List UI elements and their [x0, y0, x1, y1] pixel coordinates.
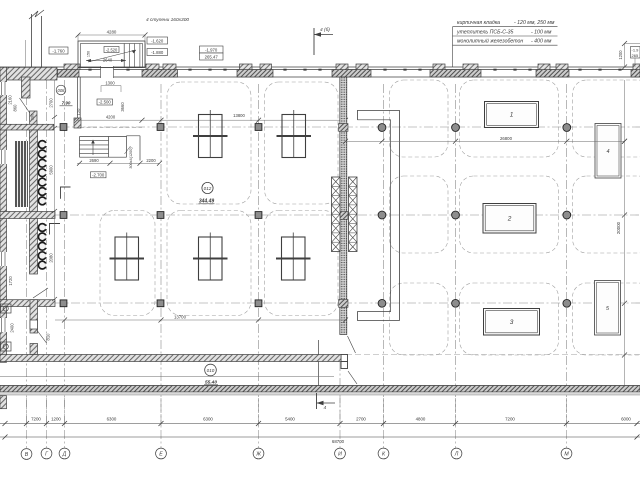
grid column line x=340	[339, 362, 341, 426]
roof opening W5	[276, 233, 311, 281]
column square K6	[255, 212, 262, 219]
interior dim line y118.5	[77, 119, 346, 121]
roof opening W1	[193, 110, 228, 158]
grid bubble Е	[156, 448, 167, 459]
lattice column east	[349, 177, 358, 252]
section mark 4 bottom	[316, 393, 318, 409]
svg-text:- 400 мм: - 400 мм	[531, 39, 552, 45]
turnstile row 1	[38, 141, 46, 149]
opening rect 5	[595, 281, 621, 336]
dim 4280 over stair enclosure	[78, 34, 145, 36]
top right cut label box	[631, 47, 640, 59]
grid column line x=64.5	[64, 80, 66, 426]
stair enclosure top (outside wall)	[78, 41, 145, 68]
svg-text:- 120 мм, 250 мм: - 120 мм, 250 мм	[514, 20, 555, 26]
svg-text:Д: Д	[62, 452, 67, 458]
svg-text:13700: 13700	[174, 314, 187, 319]
door leaf center bottom	[348, 371, 357, 384]
window in left wall 3	[0, 252, 7, 266]
grid bubble Б	[21, 449, 32, 460]
svg-text:68700: 68700	[332, 439, 345, 444]
column square K5	[157, 212, 164, 219]
level box -1.880	[147, 49, 168, 56]
column square K7	[60, 300, 67, 307]
hatched block lower	[30, 344, 38, 355]
svg-text:3: 3	[510, 319, 514, 326]
svg-text:810: 810	[46, 333, 51, 341]
svg-text:7200: 7200	[505, 417, 515, 422]
svg-text:И: И	[338, 452, 342, 458]
svg-text:860: 860	[13, 104, 18, 112]
grid bubble Л	[451, 448, 462, 459]
column circle C8	[452, 299, 460, 307]
column circle C1	[378, 124, 386, 132]
svg-text:1300: 1300	[105, 80, 115, 85]
wall pier P2	[142, 70, 178, 77]
left exterior wall	[0, 67, 7, 362]
svg-text:-1.970: -1.970	[205, 47, 218, 52]
wall block at grid crossing	[339, 124, 348, 132]
column circle C7	[378, 299, 386, 307]
post at x318.6	[318, 340, 320, 386]
level box -2.520	[104, 47, 119, 53]
bottom dim line 1	[0, 423, 640, 425]
svg-text:2690: 2690	[89, 158, 99, 163]
opening rect 3	[484, 309, 540, 336]
svg-text:1200: 1200	[51, 417, 61, 422]
chimney	[31, 14, 33, 67]
svg-text:012: 012	[204, 186, 212, 191]
lintel over pier 8	[433, 64, 445, 70]
dim line 26800	[346, 140, 625, 142]
svg-text:4: 4	[324, 405, 327, 411]
svg-text:-2.520: -2.520	[106, 47, 118, 52]
right vertical dim line	[624, 80, 626, 385]
slab zone pill R11	[573, 176, 640, 253]
slab zone pill R6	[390, 80, 449, 157]
bracket mark 1	[61, 187, 71, 199]
wall pier P3	[237, 70, 273, 77]
slab zone pill R7	[460, 80, 559, 157]
slab zone pill R12	[390, 283, 449, 355]
wall stub V1b	[30, 111, 37, 124]
dim line y163.5	[77, 162, 160, 164]
svg-text:344.49: 344.49	[199, 198, 215, 204]
grid column line x=566.5	[566, 84, 568, 426]
door jamb block	[30, 320, 38, 329]
room circle 010	[205, 364, 217, 376]
level label -2.700	[91, 172, 107, 178]
svg-text:Л: Л	[454, 452, 459, 458]
svg-text:26800: 26800	[500, 136, 513, 141]
svg-text:4800: 4800	[416, 417, 426, 422]
svg-text:-1.880: -1.880	[151, 50, 164, 55]
svg-text:Е: Е	[159, 452, 163, 458]
svg-text:-2.700: -2.700	[92, 173, 105, 178]
column square K2	[157, 124, 164, 131]
stair west wall	[77, 77, 79, 128]
window in left wall 1	[0, 82, 7, 95]
lower stair flight	[80, 136, 127, 138]
column circle C2	[452, 124, 460, 132]
svg-text:1720: 1720	[8, 276, 13, 286]
dashed opening line	[80, 126, 142, 128]
svg-text:5400: 5400	[285, 417, 295, 422]
slab zone pill R10	[460, 176, 559, 253]
slab zone pill L2	[265, 82, 339, 204]
turnstile row 2	[38, 224, 46, 232]
level box -1.760	[49, 47, 68, 54]
top wall window line	[0, 69, 640, 71]
slab zone pill L5	[265, 211, 339, 316]
svg-text:М: М	[564, 452, 569, 458]
slab zone pill R8	[573, 80, 640, 157]
stair arrow upper	[88, 50, 136, 62]
slab zone pill L1	[167, 82, 251, 204]
top right vertical dim 1200	[624, 44, 626, 68]
svg-text:150: 150	[87, 51, 91, 57]
lintel over pier 5	[260, 64, 272, 70]
roof opening W3	[110, 233, 145, 281]
svg-text:6300: 6300	[107, 417, 117, 422]
WC fixture 2	[1, 342, 12, 351]
svg-text:-2.500: -2.500	[99, 100, 112, 105]
window in left wall 4	[0, 318, 7, 332]
svg-text:008: 008	[58, 88, 66, 93]
svg-text:7.90: 7.90	[62, 101, 71, 106]
interior wall horizontal H3	[0, 300, 55, 307]
wardrobe strip band	[15, 141, 28, 207]
window mullion ticks on top wall	[88, 69, 91, 71]
wall pier P1	[58, 70, 80, 77]
svg-text:-1.9: -1.9	[632, 48, 640, 53]
wall corner line above	[25, 40, 27, 67]
bottom total dim line	[0, 436, 640, 438]
stair arrow lower	[92, 141, 94, 155]
section mark 4 top	[313, 28, 315, 55]
lintel over pier 9	[463, 64, 478, 70]
svg-text:5900: 5900	[49, 165, 54, 175]
svg-text:4 (б): 4 (б)	[320, 27, 330, 33]
wall pier P4	[332, 70, 371, 77]
top wall outer face line	[0, 66, 640, 68]
center insulated wall	[340, 77, 347, 335]
svg-text:13800: 13800	[233, 113, 245, 118]
svg-text:- 100 мм: - 100 мм	[531, 29, 552, 35]
interior wall horizontal H2	[0, 212, 55, 219]
wall block at grid crossing	[339, 300, 348, 308]
svg-text:1200: 1200	[618, 50, 623, 60]
crane bracket outline	[357, 111, 399, 321]
svg-text:20000: 20000	[616, 221, 621, 234]
grid column line x=46.5	[46, 80, 48, 426]
svg-text:7200: 7200	[31, 417, 41, 422]
dim line y320	[55, 319, 346, 321]
leader 300x4	[125, 146, 131, 154]
column square K8	[157, 300, 164, 307]
svg-text:2: 2	[507, 215, 512, 222]
wall block at grid crossing	[339, 212, 348, 220]
stair treads upper	[128, 44, 130, 68]
opening rect 2	[483, 204, 536, 234]
room circle 008	[56, 85, 66, 95]
level box -1.620	[147, 37, 168, 44]
svg-text:265: 265	[632, 53, 639, 58]
door leaf from V1	[20, 98, 30, 113]
grid bubble К	[378, 448, 389, 459]
svg-text:2640: 2640	[103, 57, 113, 62]
grid column line x=258.5	[258, 84, 260, 426]
stair west wall base block	[74, 118, 81, 128]
slab zone pill L3	[100, 211, 155, 316]
roof opening W4	[193, 233, 228, 281]
WC fixture 1	[1, 304, 12, 313]
level label -2.500	[97, 99, 113, 105]
lintel over pier 12	[633, 64, 640, 70]
column circle C3	[563, 124, 571, 132]
window in left wall 2	[0, 150, 7, 164]
grid row 2 dash-dot line	[38, 214, 640, 216]
column circle C4	[378, 211, 386, 219]
wall end squares	[341, 355, 348, 362]
left stub below wall	[0, 396, 7, 409]
svg-text:кирпичная кладка: кирпичная кладка	[457, 20, 500, 26]
interior wall stub V4	[30, 300, 38, 333]
svg-text:2080: 2080	[49, 253, 54, 263]
bottom wall upper strip	[0, 355, 341, 362]
grid row 3 dash-dot line	[55, 302, 640, 304]
grid column line x=383.5	[383, 84, 385, 426]
grid bubble И	[335, 448, 346, 459]
top wall left solid segment	[0, 67, 57, 80]
opening rect 1	[485, 102, 539, 128]
slab zone pill R9	[390, 176, 449, 253]
lintel over pier 2	[146, 64, 159, 70]
grid column line x=26.5	[26, 80, 28, 426]
bottom dim extension lines	[26, 398, 28, 448]
column square K1	[60, 124, 67, 131]
svg-text:утеплитель ПСБ-С-35: утеплитель ПСБ-С-35	[456, 29, 514, 35]
svg-text:300: 300	[30, 113, 35, 120]
dim 1300 over stair	[101, 85, 121, 87]
wall pier P7	[631, 70, 640, 77]
column square K9	[255, 300, 262, 307]
bracket mark 2	[50, 224, 61, 235]
svg-text:2700: 2700	[49, 98, 54, 108]
svg-text:2160: 2160	[8, 95, 13, 105]
lintel over pier 3	[163, 64, 176, 70]
interior wall horizontal H1	[0, 124, 54, 130]
top wall inner face line	[0, 76, 640, 78]
svg-text:265.47: 265.47	[205, 54, 219, 59]
grid row 1 dash-dot line	[40, 126, 640, 128]
svg-text:010: 010	[207, 368, 215, 373]
lintel over pier 4	[240, 64, 253, 70]
column circle C9	[563, 299, 571, 307]
lintel over pier 6	[336, 64, 348, 70]
column square K3	[255, 124, 262, 131]
lintel over pier 11	[556, 64, 568, 70]
svg-text:3660: 3660	[120, 102, 125, 112]
column square K4	[60, 212, 67, 219]
column circle C6	[563, 211, 571, 219]
interior wall vertical V2	[30, 130, 38, 274]
svg-text:-1.620: -1.620	[151, 38, 164, 43]
slab zone pill R14	[573, 283, 640, 355]
dashed line right lower	[346, 354, 640, 356]
svg-text:4 ступени 160х300: 4 ступени 160х300	[146, 17, 189, 23]
svg-text:2700: 2700	[356, 417, 366, 422]
door leaf lower	[38, 331, 47, 343]
svg-text:4: 4	[606, 149, 609, 155]
svg-text:монолитный железобетон: монолитный железобетон	[457, 38, 523, 45]
svg-text:6000: 6000	[621, 417, 631, 422]
svg-text:120: 120	[76, 108, 81, 115]
svg-text:В: В	[25, 452, 29, 458]
lintel over pier 1	[64, 64, 80, 70]
svg-text:1: 1	[510, 112, 514, 119]
door opening in top wall at stair	[101, 66, 114, 78]
lintel over pier 10	[538, 64, 550, 70]
svg-text:2200: 2200	[146, 158, 156, 163]
grid column line x=161	[160, 84, 162, 426]
grid bubble Г	[41, 448, 52, 459]
level box -1.970/265.47	[200, 46, 224, 53]
svg-text:6300: 6300	[203, 417, 213, 422]
svg-text:-1.760: -1.760	[52, 48, 65, 53]
strip divider x55	[55, 355, 57, 362]
column circle C5	[452, 211, 460, 219]
slab zone pill L4	[167, 211, 251, 316]
door leaf center top	[348, 336, 356, 353]
lattice column west	[332, 177, 341, 252]
svg-text:4200: 4200	[106, 115, 116, 120]
thin line below upper strip	[0, 376, 334, 378]
roof opening W2	[277, 110, 312, 158]
bottom wall lower strip	[0, 386, 640, 393]
interior dim line left x55	[54, 80, 56, 298]
interior wall vertical V1	[22, 77, 31, 98]
grid bubble Д	[59, 448, 70, 459]
grid bubble Ж	[253, 448, 264, 459]
svg-text:2400: 2400	[10, 323, 15, 333]
lintel over pier 7	[356, 64, 368, 70]
wall pier P5	[430, 70, 481, 77]
room circle 012	[202, 182, 213, 193]
opening rect 4	[595, 124, 621, 179]
door near H3	[33, 288, 48, 298]
svg-text:300х4(1200): 300х4(1200)	[129, 147, 133, 169]
grid column line x=455.5	[455, 84, 457, 426]
wall pier P6	[536, 70, 569, 77]
svg-text:4280: 4280	[107, 30, 117, 35]
legend leader	[452, 27, 454, 67]
slab zone pill R13	[460, 283, 559, 355]
grid bubble М	[561, 448, 572, 459]
